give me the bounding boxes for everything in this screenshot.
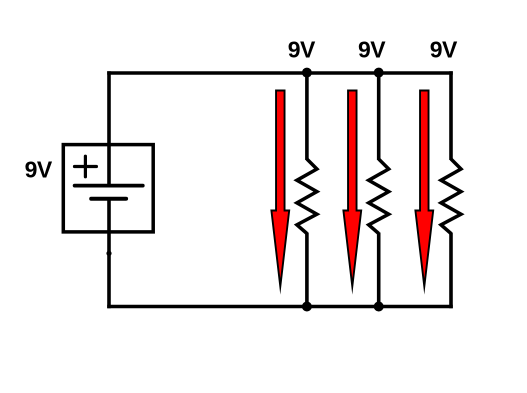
- svg-text:9V: 9V: [358, 37, 386, 63]
- svg-text:9V: 9V: [288, 37, 316, 63]
- svg-text:9V: 9V: [25, 156, 53, 182]
- svg-text:9V: 9V: [430, 37, 458, 63]
